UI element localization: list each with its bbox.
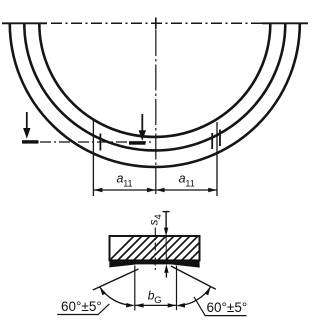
s4 dimension line through section xyxy=(165,212,167,228)
bearing lining band with end wedges xyxy=(109,260,199,268)
left angle arc xyxy=(100,287,134,305)
svg-text:G: G xyxy=(154,295,161,306)
svg-text:11: 11 xyxy=(123,178,132,188)
svg-text:4: 4 xyxy=(153,214,163,219)
inner arc of shell xyxy=(39,24,270,137)
vertical centerline xyxy=(155,18,157,198)
hatched steel body xyxy=(104,230,220,266)
horizontal datum dash-dot line xyxy=(40,141,153,143)
svg-text:60°±5°: 60°±5° xyxy=(61,299,102,314)
left angle label leader xyxy=(57,304,109,315)
middle arc of shell xyxy=(24,24,285,151)
center force arrow xyxy=(141,114,143,132)
top joint-face centerline xyxy=(2,22,308,24)
s4 lower arrow xyxy=(164,264,168,273)
left chamfer 60deg line xyxy=(93,269,139,290)
bG dimension line xyxy=(135,304,177,306)
dimension line a11 xyxy=(93,189,217,191)
svg-text:60°±5°: 60°±5° xyxy=(207,300,248,315)
s4 end tick xyxy=(163,211,170,213)
right measuring tick across wall 2 xyxy=(219,130,221,147)
left force arrow xyxy=(26,112,28,130)
left pressure bar xyxy=(22,140,39,143)
left measuring tick across wall xyxy=(99,134,101,151)
label s4 rotated xyxy=(147,214,163,225)
section centerline xyxy=(154,228,156,272)
left extension line a11 xyxy=(92,120,94,197)
right chamfer 60deg line xyxy=(171,266,216,289)
svg-text:11: 11 xyxy=(185,178,194,188)
right measuring tick across wall 1 xyxy=(211,133,213,149)
bG right extension line xyxy=(176,266,178,311)
right angle arc xyxy=(178,287,211,306)
outer arc of shell xyxy=(10,24,300,168)
center pressure bar xyxy=(129,141,146,145)
bG left extension line xyxy=(134,266,136,311)
right extension line a11 xyxy=(216,122,218,196)
right angle label leader xyxy=(194,297,247,316)
s4 upper arrow xyxy=(164,228,168,237)
svg-text:s: s xyxy=(147,220,161,226)
